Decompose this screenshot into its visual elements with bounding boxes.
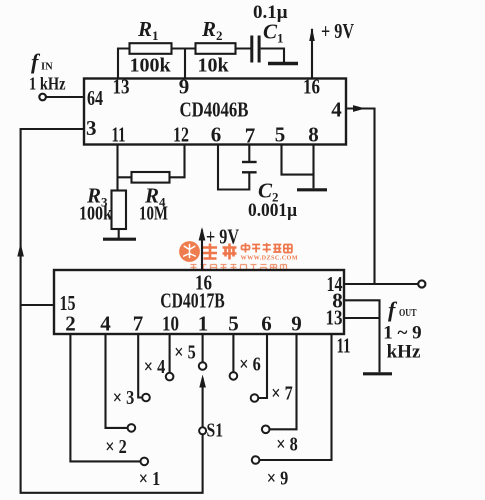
svg-text:4: 4 (331, 98, 342, 122)
svg-text:13: 13 (113, 75, 130, 99)
svg-text:11: 11 (112, 123, 126, 147)
svg-text:R1: R1 (137, 17, 159, 43)
svg-text:× 8: × 8 (276, 434, 298, 456)
svg-text:S1: S1 (207, 420, 224, 442)
svg-text:9: 9 (291, 312, 302, 336)
svg-text:1 ~ 9: 1 ~ 9 (383, 323, 421, 344)
svg-text:CD4017B: CD4017B (160, 289, 225, 313)
svg-text:10: 10 (162, 312, 179, 336)
svg-text:5: 5 (228, 312, 239, 336)
svg-text:× 5: × 5 (174, 342, 196, 364)
svg-text:16: 16 (303, 75, 320, 99)
svg-text:7: 7 (133, 312, 144, 336)
svg-text:0.001μ: 0.001μ (248, 200, 297, 221)
svg-text:× 4: × 4 (144, 356, 166, 378)
svg-text:6: 6 (211, 123, 222, 147)
svg-text:+ 9V: + 9V (206, 225, 239, 249)
svg-text:10M: 10M (139, 203, 168, 225)
svg-text:100k: 100k (129, 55, 171, 77)
svg-text:+ 9V: + 9V (321, 19, 354, 43)
svg-text:13: 13 (326, 306, 343, 330)
svg-text:9: 9 (179, 75, 190, 99)
svg-text:4: 4 (100, 312, 111, 336)
svg-text:× 9: × 9 (267, 468, 289, 490)
svg-text:1 kHz: 1 kHz (29, 74, 66, 94)
svg-text:64: 64 (87, 86, 103, 110)
svg-text:7: 7 (245, 124, 256, 148)
svg-text:× 2: × 2 (105, 436, 127, 458)
svg-text:C1: C1 (263, 20, 284, 46)
svg-text:kHz: kHz (387, 342, 421, 363)
svg-text:2: 2 (65, 312, 76, 336)
svg-text:IN: IN (41, 62, 53, 73)
svg-text:12: 12 (173, 123, 189, 147)
svg-text:OUT: OUT (399, 308, 417, 319)
svg-text:CD4046B: CD4046B (180, 98, 249, 122)
svg-text:10k: 10k (197, 55, 229, 77)
svg-text:R2: R2 (201, 17, 223, 43)
svg-text:× 7: × 7 (271, 383, 293, 405)
svg-text:× 3: × 3 (113, 387, 135, 409)
svg-text:3: 3 (86, 116, 97, 140)
svg-text:1: 1 (198, 312, 209, 336)
svg-text:11: 11 (337, 334, 351, 358)
svg-text:WWW.DZSC.COM: WWW.DZSC.COM (241, 255, 299, 262)
svg-text:f: f (388, 297, 398, 322)
svg-text:× 1: × 1 (139, 468, 161, 490)
svg-text:f: f (31, 49, 41, 74)
svg-text:8: 8 (308, 123, 319, 147)
svg-text:100k: 100k (79, 203, 113, 225)
svg-text:6: 6 (261, 312, 272, 336)
svg-text:5: 5 (275, 123, 286, 147)
svg-text:× 6: × 6 (239, 354, 261, 376)
